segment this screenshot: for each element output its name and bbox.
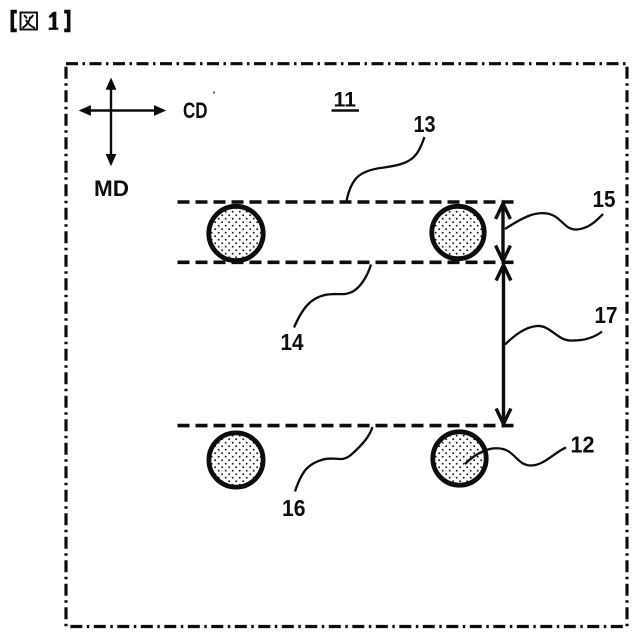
leader line to 14 bbox=[294, 265, 371, 328]
fiber circle bottom-left bbox=[209, 433, 263, 487]
svg-text:CD: CD bbox=[183, 98, 208, 123]
fiber circle top-left bbox=[209, 206, 263, 260]
leader line to 12 bbox=[465, 448, 566, 466]
figure title 図1 bracket left bbox=[10, 10, 16, 33]
leader line to 13 bbox=[347, 137, 425, 201]
svg-text:16: 16 bbox=[282, 495, 306, 521]
figure title 図1 kanji box bbox=[21, 13, 38, 30]
dimension arrow 15 (band height) bbox=[496, 204, 511, 262]
MD axis arrow (vertical) bbox=[106, 78, 117, 167]
leader line to 16 bbox=[295, 427, 373, 492]
svg-text:15: 15 bbox=[593, 186, 616, 212]
figure title bracket right bbox=[64, 10, 70, 33]
svg-text:MD: MD bbox=[94, 176, 129, 201]
fiber circle 12 bottom-right bbox=[433, 432, 486, 485]
svg-text:12: 12 bbox=[571, 432, 595, 458]
fiber circle top-right bbox=[432, 206, 484, 258]
dashed line 14 (bottom of band) bbox=[178, 260, 514, 264]
dimension arrow 17 (row spacing) bbox=[496, 265, 511, 424]
noise speck bbox=[213, 91, 215, 93]
svg-text:11: 11 bbox=[334, 89, 357, 112]
dashed line 13 (top of band) bbox=[178, 200, 514, 204]
leader line to 17 bbox=[505, 326, 602, 345]
leader line to 15 bbox=[505, 213, 603, 229]
svg-text:13: 13 bbox=[414, 111, 436, 137]
dashed line 16 (lower row) bbox=[178, 424, 514, 428]
figure title numeral 1 bbox=[49, 12, 59, 30]
outer dash-dot border frame 11 bbox=[66, 64, 627, 627]
CD axis arrow (horizontal) bbox=[79, 105, 167, 116]
svg-text:17: 17 bbox=[595, 302, 618, 328]
svg-text:14: 14 bbox=[281, 329, 304, 355]
